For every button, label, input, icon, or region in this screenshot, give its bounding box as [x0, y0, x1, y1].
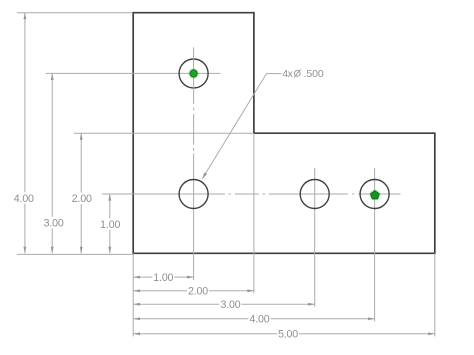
extension line inner step edge (2.00 top)	[74, 132, 254, 134]
svg-text:2.00: 2.00	[188, 286, 208, 298]
vertical extension: part right edge down	[434, 253, 436, 336]
dimension 2.00 left: line	[80, 133, 82, 253]
vertical extension: hole4 centerline down	[374, 220, 376, 321]
vertical extension: inner corner down	[253, 133, 255, 293]
svg-text:5.00: 5.00	[278, 329, 298, 341]
vertical extension: hole1/2 centerline below part	[193, 220, 195, 280]
svg-text:3.00: 3.00	[220, 299, 240, 311]
dimension 5.00 bottom: arrows	[133, 332, 434, 335]
dimension 2.00 left: arrows	[80, 133, 83, 253]
dimension 4.00 bottom: line	[133, 318, 374, 320]
hole H1 vertical centerline	[193, 47, 195, 104]
dimension 4.00 left: arrows	[23, 13, 26, 254]
dimension 4.00 bottom: arrows	[133, 317, 374, 320]
part outline (L-shaped plate)	[133, 13, 435, 254]
svg-text:4.00: 4.00	[14, 193, 34, 205]
extension line hole row left (1.00 top, merges into hole2 crosshair)	[102, 193, 225, 195]
leader line for hole callout	[202, 74, 281, 179]
dimension 2.00 bottom: arrows	[133, 289, 254, 292]
dimension 1.00 bottom: arrows	[133, 276, 193, 279]
leader arrowhead	[202, 172, 207, 178]
extension line hole1 center row (3.00 top, merges with hole1 horizontal crosshair)	[46, 72, 221, 74]
green selection marker on hole H1 center	[188, 68, 199, 79]
hole H3 horizontal crosshair	[269, 193, 348, 195]
dimension 3.00 bottom: arrows	[133, 303, 314, 306]
dimension 4.00 left: line	[24, 13, 26, 254]
vertical extension: hole3 centerline down	[314, 220, 316, 307]
dimension 2.00 bottom: line	[133, 290, 254, 292]
dimension 1.00 left: arrows	[108, 194, 111, 253]
centerline dash-dot between H1 and H2	[193, 108, 195, 151]
extension line top-left (4.00 top)	[17, 12, 133, 14]
svg-text:4.00: 4.00	[249, 314, 269, 326]
svg-text:1.00: 1.00	[153, 272, 173, 284]
dimension 5.00 bottom: line	[133, 333, 434, 335]
hole H4 circle	[360, 180, 389, 209]
extension line bottom edge left	[17, 253, 133, 255]
svg-text:1.00: 1.00	[100, 219, 120, 231]
svg-text:.500: .500	[304, 68, 324, 80]
hole H4 vertical crosshair	[374, 168, 376, 220]
hole H4 horizontal crosshair	[358, 193, 401, 195]
hole callout diameter symbol	[294, 69, 301, 77]
hole H3 vertical crosshair	[314, 168, 316, 220]
hole H1 circle	[179, 59, 208, 88]
dimension 3.00 left: arrows	[51, 73, 54, 253]
svg-text:4x: 4x	[282, 69, 292, 80]
dimension 1.00 left: line	[109, 194, 111, 253]
hole H2 vertical centerline (continues below as extension)	[193, 153, 195, 220]
centerline dot between H3 and H4	[352, 193, 354, 195]
dimension 1.00 bottom: line	[133, 276, 193, 278]
svg-text:2.00: 2.00	[72, 193, 92, 205]
dimension 3.00 bottom: line	[133, 303, 314, 305]
hole H3 circle	[300, 180, 329, 209]
hole H2 circle	[179, 180, 208, 209]
centerline dash-dot between H2 and H3	[229, 193, 266, 195]
green selection marker on hole H4 (pentagon)	[370, 190, 381, 201]
vertical extension: part left edge down	[132, 253, 134, 336]
svg-text:3.00: 3.00	[44, 217, 64, 229]
dimension 3.00 left: line	[51, 73, 53, 253]
